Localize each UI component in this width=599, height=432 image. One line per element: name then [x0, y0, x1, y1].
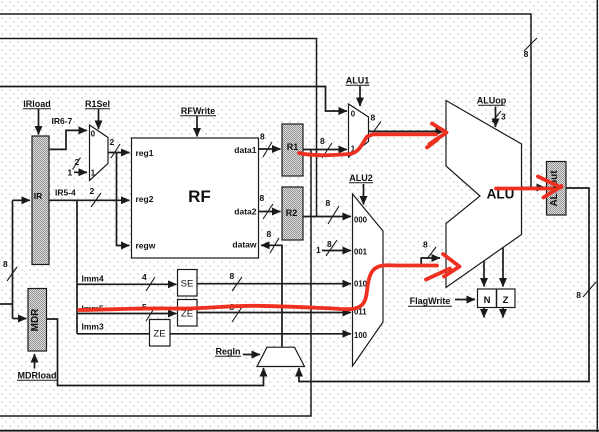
svg-text:dataw: dataw	[232, 240, 256, 250]
wire R1 output to ALU1 mux input 1	[303, 149, 347, 151]
svg-text:MDR: MDR	[30, 308, 41, 332]
bus width slash 8 on dataw	[270, 238, 279, 253]
svg-text:ALU2: ALU2	[349, 173, 373, 183]
svg-text:1: 1	[91, 169, 96, 178]
wire constant 1 to mux input 1	[74, 171, 87, 173]
svg-text:RF: RF	[188, 187, 211, 206]
register MDR	[28, 289, 47, 352]
wire Z flag out	[502, 308, 504, 318]
wire SE output to ALU2 mux input 010	[197, 283, 351, 285]
svg-text:MDRload: MDRload	[18, 371, 57, 381]
red arrowhead at ALU input A	[430, 124, 447, 145]
wire Imm4 to SE	[77, 283, 176, 285]
svg-text:IR5-4: IR5-4	[55, 188, 76, 198]
wire mux output to RF reg1	[108, 152, 130, 154]
wire FlagWrite arrow	[455, 299, 475, 301]
image right border	[596, 0, 598, 432]
svg-text:RegIn: RegIn	[215, 347, 240, 357]
bus width slash 4	[146, 277, 155, 291]
red arrowhead barb upper at ALUout	[538, 177, 561, 188]
svg-text:regw: regw	[136, 241, 156, 251]
svg-text:IRload: IRload	[23, 99, 51, 109]
bus width slash 8 on feedback	[583, 282, 596, 297]
svg-text:1: 1	[316, 245, 321, 255]
svg-text:8: 8	[576, 290, 581, 300]
svg-text:8: 8	[230, 271, 235, 281]
svg-text:2: 2	[90, 186, 95, 196]
wire third rail bus to ALU1 mux input 0	[0, 87, 347, 112]
bus width slash 8 on data1	[263, 142, 272, 157]
bus width slash 8 on R1 output	[322, 143, 332, 158]
wire ALU flag N output	[483, 261, 485, 287]
svg-text:data1: data1	[234, 145, 256, 155]
svg-text:N: N	[484, 295, 491, 306]
wire RF data1 to R1	[259, 148, 281, 150]
wire data bus to IR	[13, 199, 31, 201]
zero extender ZE	[178, 300, 198, 327]
svg-text:0: 0	[351, 110, 356, 119]
signal IRload	[23, 99, 51, 109]
svg-text:8: 8	[326, 198, 331, 208]
signal RegIn	[215, 347, 241, 357]
signal ALU2	[349, 173, 373, 183]
wire ALUop arrow	[495, 107, 497, 128]
flag registers N and Z	[478, 289, 516, 308]
svg-text:R1: R1	[287, 142, 299, 152]
red highlight path R1 to ALU input A	[299, 134, 436, 155]
wire bottom rail bus from R1 output	[0, 150, 311, 417]
mux RegIn	[257, 347, 305, 366]
ALU	[446, 101, 522, 288]
wire ALU output to ALUout	[522, 187, 546, 189]
wire RF data2 to R2	[259, 211, 281, 213]
wire constant 1 to ALU2 mux input 001	[322, 250, 351, 252]
bus width slash 8 on data bus	[7, 267, 17, 281]
wire ALU1 arrow	[359, 86, 361, 106]
svg-text:Imm4: Imm4	[82, 274, 104, 284]
bus width slash 8 on data2	[263, 204, 273, 219]
svg-text:000: 000	[354, 216, 368, 225]
bus width slash 8 on ZE output	[232, 307, 242, 322]
svg-text:8: 8	[320, 136, 325, 146]
red arrowhead at ALU input B	[443, 254, 460, 277]
register R2	[282, 187, 303, 240]
svg-text:001: 001	[354, 248, 368, 257]
red highlight path ALU to ALUout	[496, 187, 552, 191]
svg-text:8: 8	[260, 193, 265, 203]
wire top rail bus to ALUout	[0, 14, 531, 188]
bus width slash 2 on IR5-4	[91, 193, 101, 207]
wire ALU1 mux output to ALU input A	[369, 130, 445, 132]
bus width slash 8 on ALU input A	[374, 122, 381, 132]
wire ALUout feedback to RegIn mux	[299, 188, 589, 382]
mux R1Sel	[90, 125, 109, 181]
register ALUout	[547, 162, 567, 216]
svg-text:8: 8	[260, 132, 265, 142]
svg-text:1: 1	[68, 168, 73, 178]
wire ALU flag Z output	[502, 248, 504, 287]
svg-text:FlagWrite: FlagWrite	[410, 296, 451, 306]
signal FlagWrite	[408, 296, 452, 307]
signal ALU1	[346, 76, 370, 86]
wire IR6-7 to R1Sel mux input 0	[49, 130, 87, 149]
red highlight path Imm5 to ALU input B	[79, 265, 437, 310]
wire MDRload arrow	[34, 354, 36, 369]
wire MDR output to RegIn mux	[47, 319, 264, 386]
svg-text:8: 8	[327, 239, 332, 249]
svg-text:ZE: ZE	[153, 329, 165, 340]
svg-text:ALU1: ALU1	[346, 76, 370, 86]
wire data bus to MDR	[13, 318, 27, 320]
svg-text:2: 2	[75, 157, 80, 167]
wire RFWrite arrow	[196, 116, 198, 137]
svg-text:reg1: reg1	[136, 148, 154, 158]
wire data bus vertical	[12, 200, 14, 318]
svg-text:3: 3	[501, 112, 506, 122]
bus width slash 5	[146, 307, 155, 321]
sign extender SE	[178, 270, 198, 297]
register R1	[282, 124, 303, 176]
svg-text:0: 0	[91, 129, 96, 138]
mux ALU1	[349, 104, 369, 157]
svg-text:8: 8	[267, 229, 272, 239]
svg-text:100: 100	[354, 331, 368, 340]
svg-text:8: 8	[3, 259, 8, 269]
wire Imm field vertical from IR5-4 bus	[76, 200, 78, 333]
wire R2 output to ALU2 mux input 000	[303, 216, 351, 218]
svg-text:8: 8	[524, 49, 529, 59]
wire mux output tap to RF regw	[117, 153, 130, 246]
register IR	[32, 136, 49, 265]
bus width slash 3 on ALUop	[492, 111, 501, 122]
wire memory data bus stub	[0, 303, 13, 305]
wire Imm3 to ALU2 mux input 100	[77, 333, 351, 335]
signal MDRload	[17, 371, 57, 381]
bus width slash 8 on constant 1	[326, 240, 337, 256]
wire R1Sel arrow	[98, 109, 100, 129]
svg-text:2: 2	[110, 137, 115, 147]
svg-text:data2: data2	[234, 207, 256, 217]
wire ALU2 mux output to ALU input B	[383, 258, 440, 265]
svg-text:IR: IR	[34, 191, 43, 201]
red arrowhead barb lower at ALUout	[544, 186, 562, 198]
svg-text:8: 8	[423, 240, 428, 250]
red arrowhead tail at ALU input A	[427, 140, 438, 148]
bus width slash 8 on ALU input B	[427, 247, 436, 259]
wire ALU2 arrow	[363, 184, 365, 205]
wire RegIn mux output to RF dataw	[261, 245, 282, 347]
signal R1Sel	[85, 99, 110, 109]
bus width slash 2 on constant	[73, 158, 81, 170]
signal RFWrite	[180, 106, 216, 116]
mux ALU2	[353, 194, 384, 366]
svg-text:Imm3: Imm3	[82, 322, 104, 332]
svg-text:Z: Z	[503, 295, 509, 306]
bus width slash 8 on top rail	[524, 38, 537, 51]
wire second rail bus	[0, 39, 317, 217]
svg-text:R2: R2	[286, 208, 298, 218]
svg-text:4: 4	[142, 272, 147, 282]
wire IRload arrow	[38, 109, 40, 135]
bus width slash 8 on R2 output	[328, 206, 339, 224]
image bottom border	[0, 430, 599, 432]
wire Imm5 to ZE	[77, 313, 176, 315]
zero extender ZE duplicate	[150, 320, 171, 347]
svg-text:R1Sel: R1Sel	[85, 99, 110, 109]
svg-text:RFWrite: RFWrite	[181, 106, 215, 116]
wire N flag out	[483, 308, 485, 318]
svg-text:reg2: reg2	[136, 194, 154, 204]
bus width slash 8 on SE output	[232, 277, 242, 291]
svg-text:ALUop: ALUop	[477, 96, 507, 106]
wire IR5-4 to RF reg2	[49, 199, 130, 201]
bus width slash 2 on mux output	[111, 144, 120, 158]
register file RF	[132, 138, 259, 258]
svg-text:SE: SE	[181, 279, 194, 290]
signal ALUop	[477, 96, 507, 106]
svg-text:8: 8	[371, 113, 376, 123]
svg-text:IR6-7: IR6-7	[52, 116, 73, 126]
red arrowhead tail at ALU input B	[426, 269, 450, 280]
wire RegIn arrow	[243, 354, 260, 356]
wire ZE output to ALU2 mux input 011	[197, 312, 351, 314]
